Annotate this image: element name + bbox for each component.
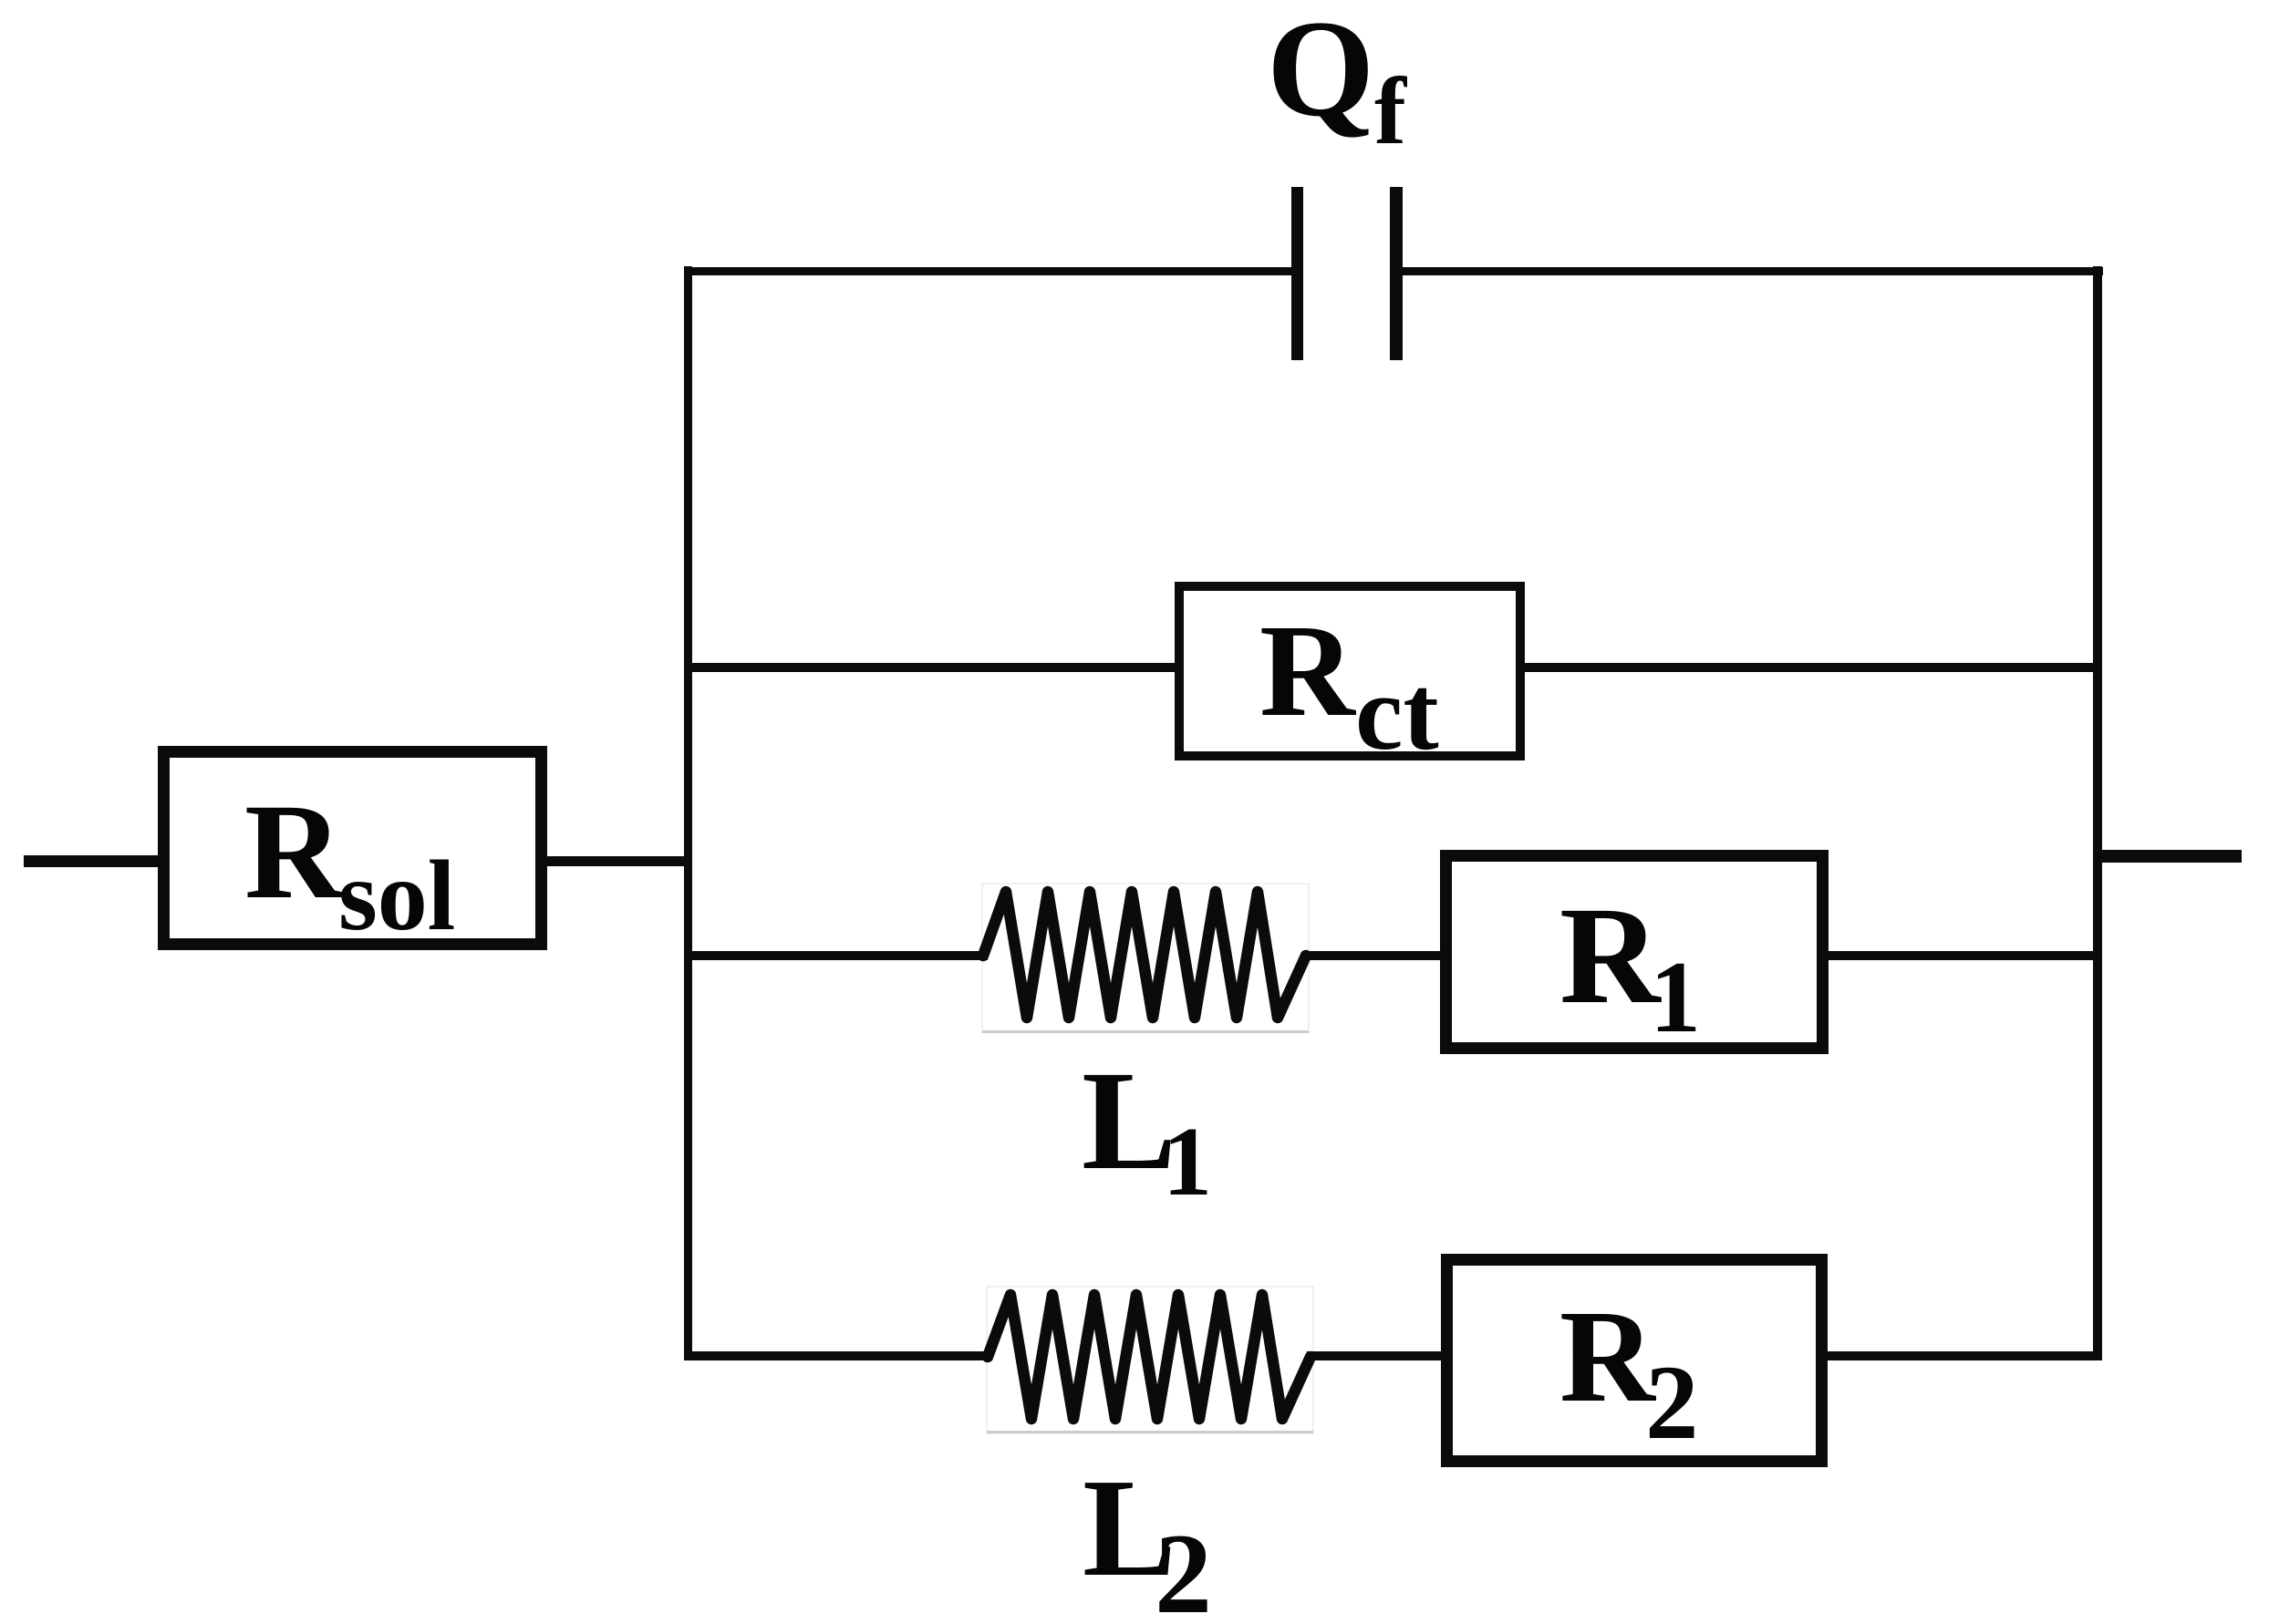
wire: Rct branch, left segment bbox=[684, 663, 1179, 672]
label L1 bbox=[1082, 1041, 1212, 1216]
svg-text:R: R bbox=[1559, 1284, 1656, 1430]
wire: top branch, left segment bbox=[684, 267, 1292, 275]
svg-text:R: R bbox=[244, 776, 345, 927]
wire: L2 to R2 bbox=[1307, 1351, 1446, 1360]
label L2 bbox=[1083, 1451, 1212, 1624]
wire: R1 to right bus bbox=[1825, 951, 2093, 960]
wire: Rct branch, right segment bbox=[1520, 663, 2098, 672]
wire: left entry lead bbox=[24, 855, 162, 867]
svg-text:2: 2 bbox=[1155, 1511, 1212, 1624]
svg-text:ct: ct bbox=[1355, 653, 1439, 772]
wire: top branch, right segment bbox=[1403, 267, 2103, 275]
svg-text:Q: Q bbox=[1267, 0, 1374, 145]
resistor Rsol bbox=[164, 752, 542, 952]
wire: L1 to R1 bbox=[1302, 951, 1445, 960]
svg-text:1: 1 bbox=[1650, 941, 1701, 1054]
capacitor Qf right plate bbox=[1390, 187, 1403, 360]
svg-text:R: R bbox=[1259, 598, 1356, 744]
wire: right bus vertical bbox=[2093, 266, 2102, 1360]
inductor L1 coil bbox=[982, 884, 1309, 1033]
wire: right exit lead bbox=[2093, 850, 2242, 863]
svg-text:R: R bbox=[1559, 879, 1662, 1033]
inductor L2 coil bbox=[987, 1287, 1313, 1433]
wire: left bus vertical bbox=[684, 266, 692, 1360]
svg-text:f: f bbox=[1374, 57, 1407, 164]
svg-text:1: 1 bbox=[1163, 1108, 1212, 1216]
svg-text:2: 2 bbox=[1645, 1344, 1699, 1462]
resistor Rct bbox=[1179, 586, 1520, 772]
wire: L1 branch lead from left bus bbox=[684, 951, 988, 960]
wire: Rsol to left bus bbox=[547, 856, 692, 866]
capacitor Qf left plate bbox=[1291, 187, 1303, 360]
resistor R2 bbox=[1447, 1260, 1822, 1463]
wire: L2 branch lead from left bus bbox=[684, 1351, 992, 1360]
resistor R1 bbox=[1446, 856, 1823, 1055]
label Qf bbox=[1267, 0, 1407, 164]
wire: R2 to right bus bbox=[1824, 1351, 2093, 1360]
svg-text:sol: sol bbox=[338, 840, 455, 951]
